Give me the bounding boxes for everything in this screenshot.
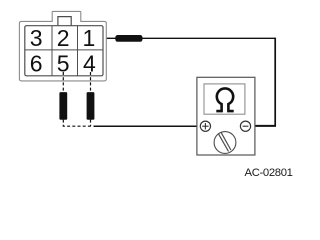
wire right vertical run — [274, 38, 276, 126]
wire from pin 1 to meter negative side (top run) — [95, 37, 275, 39]
svg-text:2: 2 — [57, 25, 70, 51]
dashed link probes to meter wire — [63, 120, 92, 127]
selector dial — [214, 132, 236, 154]
grid separator col 1|2 — [51, 26, 53, 76]
wire to plus terminal — [94, 125, 201, 127]
svg-text:AC-02801: AC-02801 — [245, 167, 293, 179]
connector outer housing with top tab — [19, 11, 106, 81]
meter display window — [204, 84, 245, 114]
probe barrel on pin-1 wire — [115, 35, 142, 42]
svg-text:4: 4 — [83, 50, 96, 76]
dashed link under pin-4 probe — [90, 120, 92, 127]
dashed lead from pin 4 — [90, 72, 92, 93]
grid separator col 2|3 — [77, 26, 79, 76]
dial slot — [218, 134, 228, 152]
test probe on pin 4 lead — [87, 92, 95, 120]
connector tab inner — [58, 17, 71, 26]
svg-text:3: 3 — [30, 25, 43, 51]
minus terminal — [240, 121, 250, 131]
grid separator rows — [25, 49, 103, 51]
multimeter body — [197, 77, 255, 155]
ohm symbol — [216, 88, 233, 111]
svg-text:1: 1 — [83, 25, 96, 51]
svg-text:6: 6 — [30, 50, 43, 76]
test probe on pin 5 lead — [59, 92, 67, 120]
dashed lead from pin 5 — [62, 72, 64, 93]
connector pin-grid frame — [25, 26, 103, 76]
wire stub into minus terminal — [250, 125, 276, 127]
plus terminal — [200, 121, 210, 131]
